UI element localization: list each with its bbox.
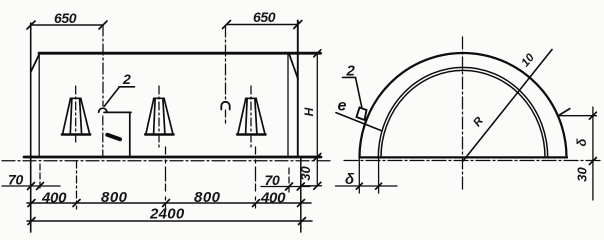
svg-text:800: 800 [194, 189, 221, 206]
svg-text:δ: δ [574, 138, 589, 146]
svg-text:2: 2 [346, 63, 356, 80]
svg-text:800: 800 [101, 189, 128, 206]
svg-text:400: 400 [41, 189, 67, 206]
svg-text:H: H [302, 107, 316, 116]
svg-text:70: 70 [8, 171, 23, 187]
svg-text:30: 30 [575, 167, 590, 182]
svg-text:R: R [471, 115, 486, 130]
svg-text:650: 650 [253, 9, 276, 25]
svg-text:2400: 2400 [149, 206, 185, 223]
svg-text:2: 2 [122, 71, 131, 87]
svg-text:650: 650 [54, 10, 77, 26]
svg-text:70: 70 [265, 172, 280, 188]
svg-text:δ: δ [345, 171, 355, 188]
svg-text:30: 30 [298, 166, 313, 181]
svg-text:e: e [338, 98, 347, 115]
svg-text:10: 10 [519, 51, 537, 69]
svg-text:400: 400 [260, 189, 286, 206]
